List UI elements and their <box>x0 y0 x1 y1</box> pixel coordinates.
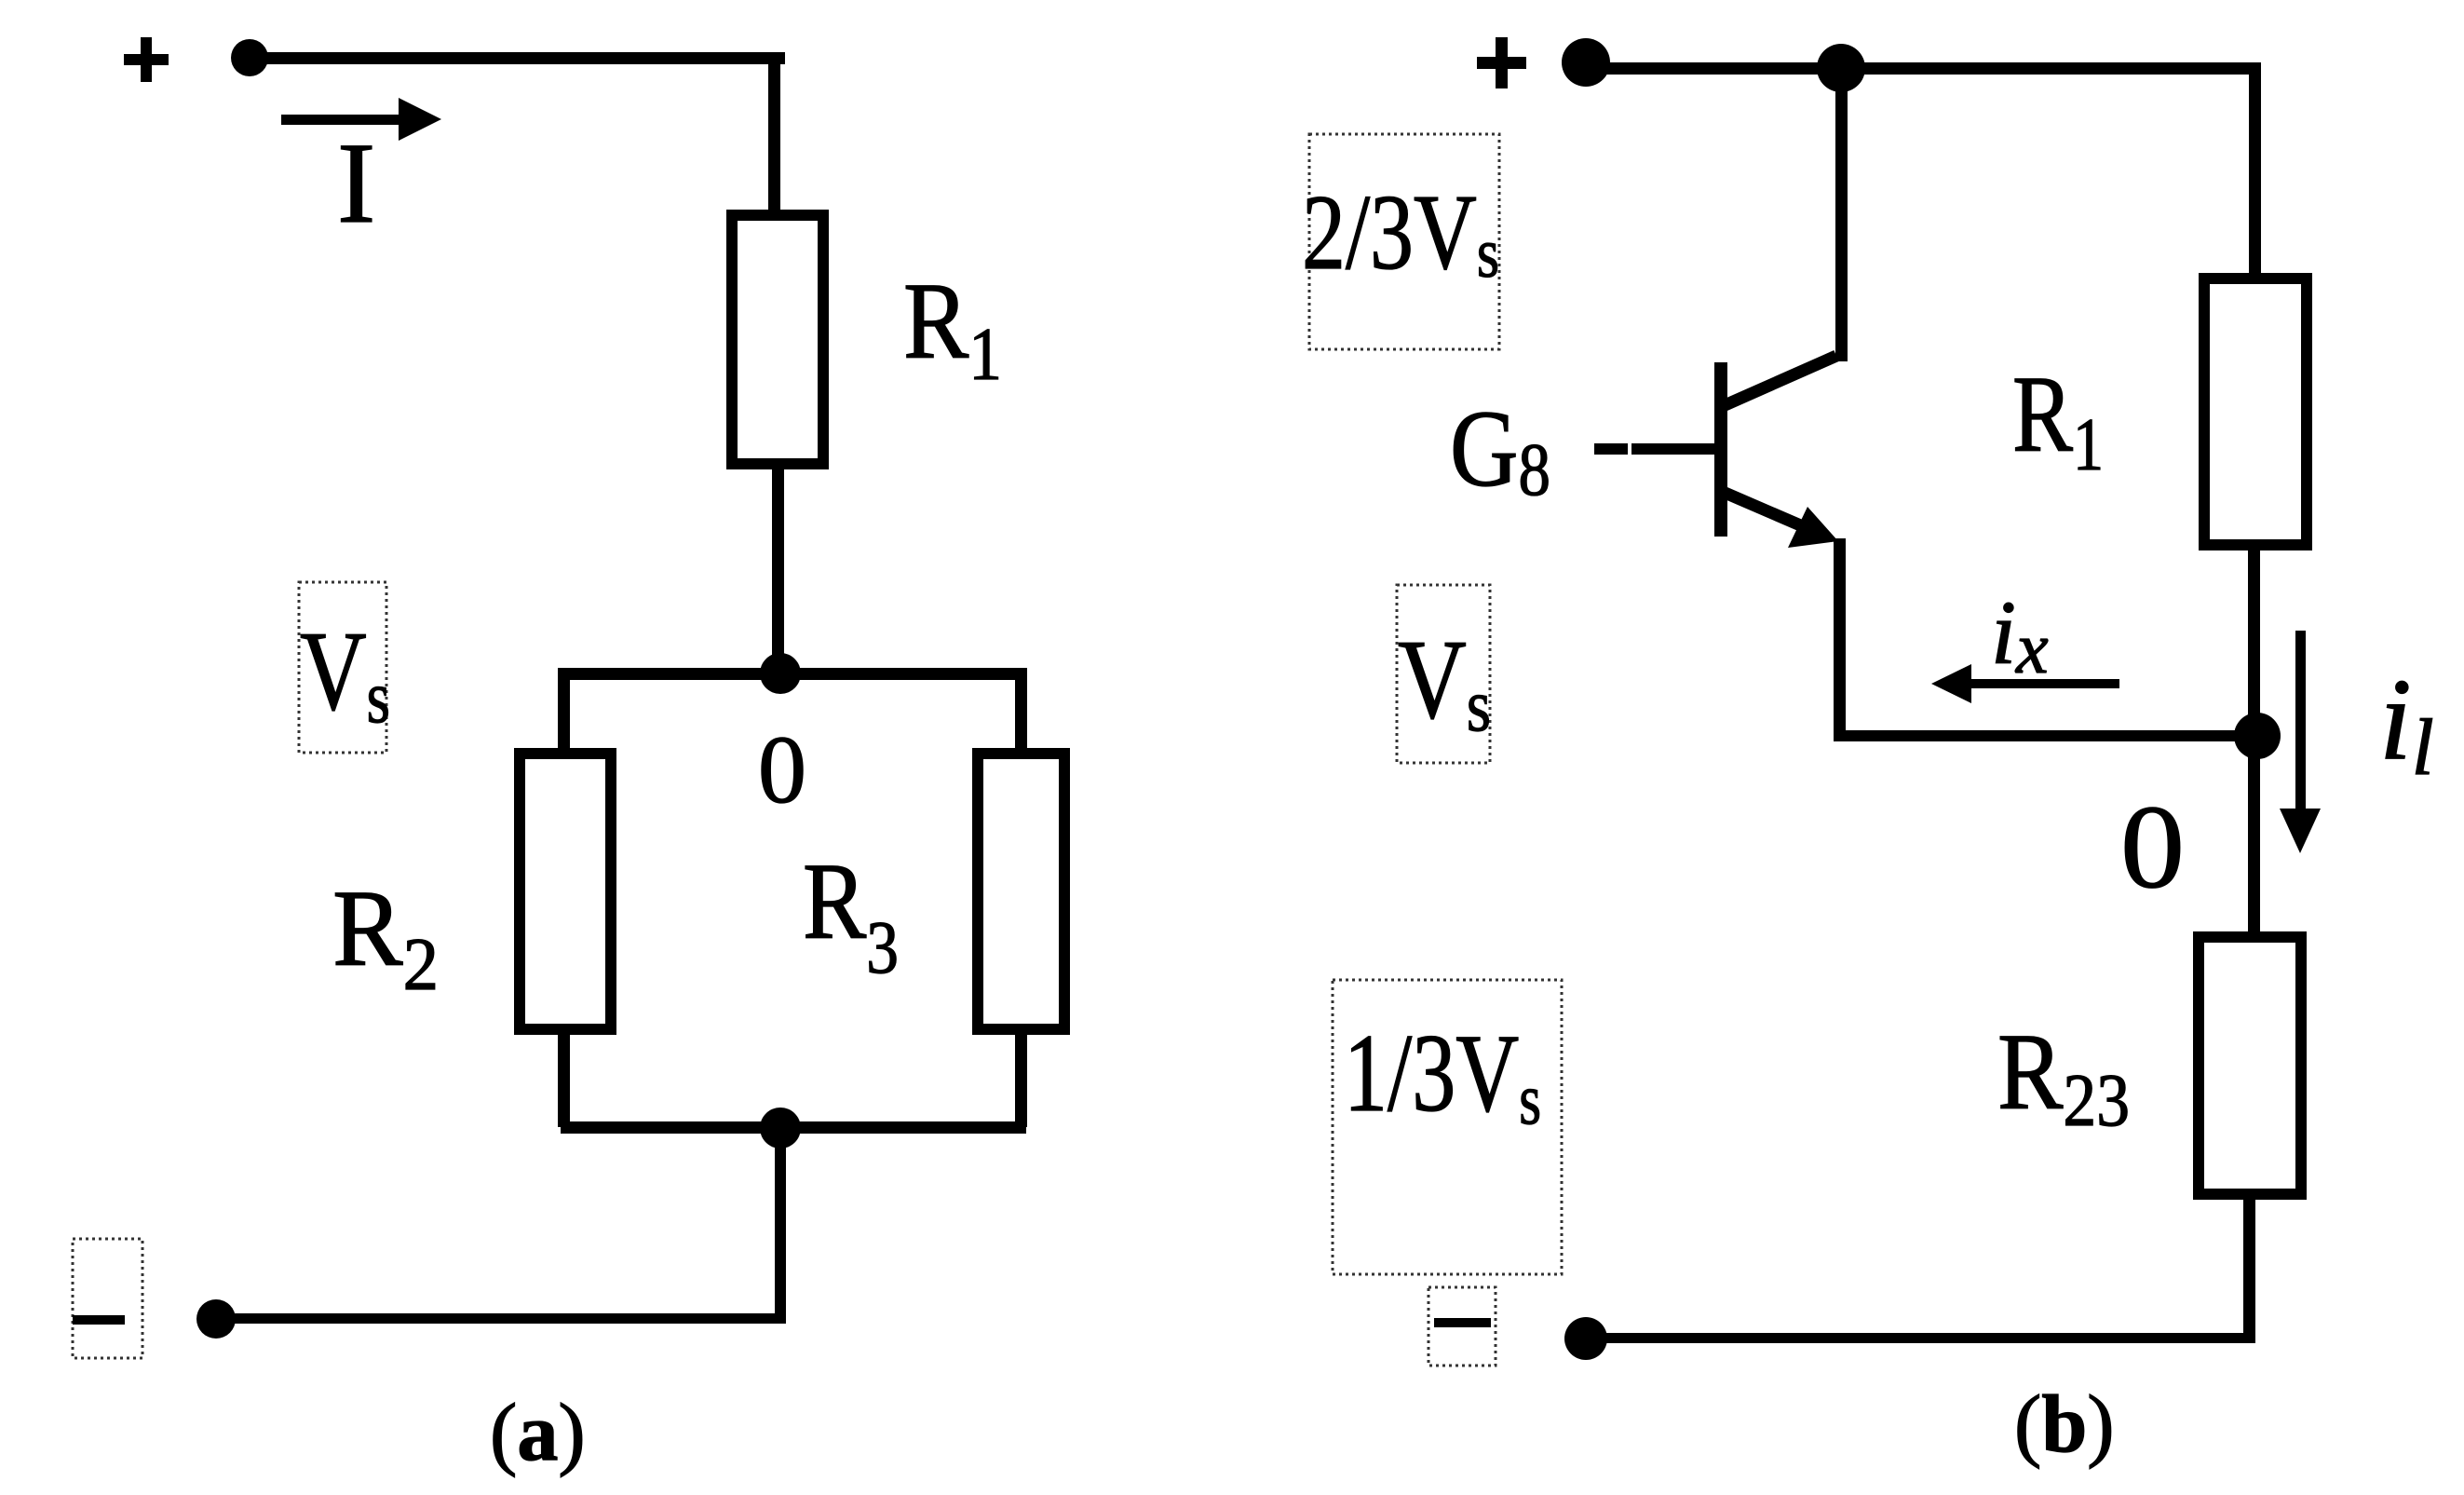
svg-text:R3: R3 <box>803 840 899 989</box>
resistor R3 <box>978 754 1064 1029</box>
node dot: minus terminal (a) <box>196 1299 236 1339</box>
dashed box around minus (a) <box>73 1239 142 1358</box>
dashed box Vs (b) <box>1397 585 1490 763</box>
wire: top horizontal (b) <box>1586 62 2260 75</box>
wire: bottom horizontal (b) <box>1586 1333 2255 1343</box>
wire: R1 bottom to node 0 (a) <box>772 464 784 674</box>
node dot: + terminal (b) <box>1562 38 1610 87</box>
wire: right stub down to R3 <box>1015 668 1027 754</box>
wire: top right vertical down to R1 (b) <box>2249 62 2261 273</box>
wire: R1 (b) bottom to node 0 (b) <box>2248 545 2260 736</box>
wire: R3 bottom stub <box>1015 1029 1027 1127</box>
plus terminal symbol (a) <box>124 37 169 82</box>
dashed box Vs (a) <box>299 582 386 753</box>
svg-text:2/3Vs: 2/3Vs <box>1302 173 1499 292</box>
minus sign (b) <box>1434 1318 1491 1327</box>
current arrow I <box>281 98 441 141</box>
svg-text:ix: ix <box>1991 583 2049 688</box>
wire: top bus of parallel pair (a) <box>561 668 1026 680</box>
resistor R1 (b) <box>2204 279 2307 545</box>
wire: vertical down from bottom junction (a) <box>775 1128 786 1319</box>
wire: collector vertical from top junction <box>1835 68 1848 361</box>
node dot bottom junction (a) <box>760 1108 801 1148</box>
wire: top right vertical down to R1 (a) <box>768 52 780 211</box>
wire: below R23 vertical <box>2243 1194 2255 1343</box>
minus sign (a) <box>73 1315 125 1325</box>
resistor R23 <box>2199 937 2301 1194</box>
dashed box minus (b) <box>1428 1287 1496 1366</box>
wire: bottom bus of parallel pair (a) <box>561 1121 1026 1134</box>
resistor R1 (a) <box>732 215 823 464</box>
svg-text:R23: R23 <box>1997 1011 2130 1142</box>
svg-text:0: 0 <box>2120 781 2185 913</box>
transistor G8: base dash <box>1594 443 1628 455</box>
wire: top horizontal (a) <box>250 52 785 64</box>
svg-text:Vs: Vs <box>300 608 390 739</box>
svg-text:R1: R1 <box>903 260 1002 396</box>
node dot 0 (b) <box>2234 713 2281 759</box>
junction node dot top (b) <box>1817 44 1865 92</box>
svg-text:(b): (b) <box>2014 1379 2115 1470</box>
node dot 0 (a) <box>760 653 801 694</box>
svg-text:I: I <box>337 119 375 247</box>
node dot: minus terminal (b) <box>1564 1317 1607 1360</box>
resistor R2 <box>520 754 611 1029</box>
plus terminal symbol (b) <box>1477 37 1526 88</box>
transistor G8: collector diagonal <box>1723 356 1836 406</box>
svg-text:R1: R1 <box>2012 353 2104 486</box>
wire: node 0 (b) down to R23 <box>2248 736 2260 937</box>
svg-text:il: il <box>2379 656 2434 792</box>
current arrow ix <box>1931 664 2119 703</box>
svg-text:R2: R2 <box>332 867 439 1006</box>
wire: bottom horizontal to minus terminal (a) <box>216 1313 786 1324</box>
svg-text:Vs: Vs <box>1398 617 1491 747</box>
current arrow i_l <box>2280 631 2321 853</box>
transistor G8: emitter diagonal <box>1723 492 1811 530</box>
transistor G8: base bar <box>1714 362 1727 537</box>
wire: R2 bottom stub <box>558 1029 570 1127</box>
dashed box 2/3Vs <box>1309 134 1499 349</box>
svg-text:1/3Vs: 1/3Vs <box>1344 1011 1541 1139</box>
svg-text:0: 0 <box>758 716 806 823</box>
svg-text:G8: G8 <box>1450 387 1550 511</box>
node dot: + terminal (a) <box>231 39 268 76</box>
svg-text:(a): (a) <box>490 1388 586 1478</box>
wire: emitter horizontal wire to node (b) <box>1834 730 2257 741</box>
wire: emitter vertical (b) <box>1834 538 1846 736</box>
transistor G8: base lead <box>1631 443 1717 455</box>
dashed box 1/3Vs <box>1333 980 1562 1274</box>
wire: left stub down to R2 <box>558 668 570 754</box>
transistor G8: emitter arrowhead <box>1788 507 1838 548</box>
